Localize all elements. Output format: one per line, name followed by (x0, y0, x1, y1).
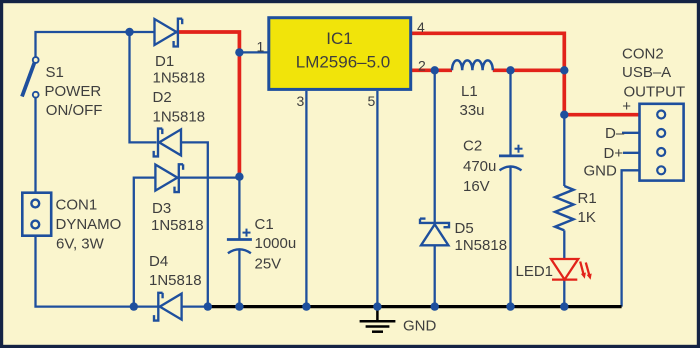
svg-text:S1: S1 (46, 64, 64, 81)
junction: +5V out / R1 (560, 111, 568, 119)
wire: output node down to R1 top (563, 115, 565, 186)
svg-text:D1: D1 (155, 53, 174, 70)
svg-text:D+: D+ (604, 145, 624, 162)
wire: CON2 GND pin down to ground rail (622, 170, 640, 306)
junction: pin5 / rail / gnd (373, 302, 381, 310)
wire: S1 bottom to CON1 top (34, 98, 36, 193)
connector CON1 (22, 193, 51, 236)
svg-text:CON2: CON2 (622, 46, 664, 63)
svg-text:LM2596–5.0: LM2596–5.0 (296, 53, 391, 72)
svg-text:2: 2 (418, 58, 426, 74)
junction: D5 / rail (431, 302, 439, 310)
wire: IC1 pin 3 to ground rail (305, 91, 307, 307)
diode D4 (1N5818) (154, 293, 182, 321)
junction: S1/D1/D2 node (125, 28, 133, 36)
wire: D2 anode to vertical bus (181, 142, 208, 306)
junction: D4 anode / rail (204, 302, 212, 310)
diode D5 (1N5818) (420, 219, 449, 246)
wire: R1 bottom to LED1 anode (563, 230, 565, 259)
svg-text:D3: D3 (152, 200, 171, 217)
wire: top rail S1 to D1 anode node (36, 32, 130, 57)
capacitor C2 (499, 145, 524, 171)
wire: D3 junction down to C1 top (238, 177, 240, 240)
svg-text:470u: 470u (463, 158, 496, 175)
diode D1 (1N5818) (155, 19, 183, 47)
wire: C2 bottom to ground rail (509, 166, 511, 306)
svg-text:OUTPUT: OUTPUT (624, 84, 686, 101)
svg-text:+: + (622, 98, 631, 115)
resistor R1 (555, 186, 573, 230)
svg-text:1N5818: 1N5818 (153, 109, 206, 126)
wire: IC1 pin 1 (239, 51, 268, 53)
junction: C1 / rail (235, 302, 243, 310)
wire: D5 anode to ground rail (434, 245, 436, 306)
LED1 (551, 259, 589, 280)
svg-text:1N5818: 1N5818 (153, 70, 206, 87)
wire: output node to CON2 + pin (red) (564, 113, 639, 117)
svg-text:D2: D2 (153, 89, 172, 106)
wire: CON2 D+ pin (623, 152, 640, 154)
diode D2 (1N5818) (154, 129, 181, 157)
IC1 LM2596-5.0 (269, 18, 411, 90)
svg-text:1: 1 (257, 39, 265, 55)
svg-text:POWER: POWER (45, 83, 102, 100)
svg-text:IC1: IC1 (326, 29, 352, 48)
junction: pin2 / D5 (431, 66, 439, 74)
wire: CON2 D- pin (622, 132, 640, 134)
svg-text:1N5818: 1N5818 (455, 237, 508, 254)
svg-text:3: 3 (297, 93, 305, 109)
junction: D3 cathode / C1 (235, 173, 243, 181)
wire: D4 anode to ground rail start (181, 305, 207, 307)
svg-text:D4: D4 (149, 253, 168, 270)
junction: IC1 pin 1 tap (235, 48, 243, 56)
wire: node A down to D2 cathode (130, 32, 157, 142)
svg-text:16V: 16V (463, 178, 490, 195)
ground symbol (360, 307, 396, 332)
svg-text:33u: 33u (460, 102, 485, 119)
svg-text:R1: R1 (578, 190, 597, 207)
junction: C2 / rail (506, 302, 514, 310)
svg-text:CON1: CON1 (56, 197, 98, 214)
wire: L1 to output node (red) (493, 68, 565, 72)
wire: D1 cathode to positive bus (red) (177, 32, 240, 177)
svg-text:25V: 25V (255, 255, 282, 272)
inductor L1 (452, 60, 493, 70)
svg-text:D5: D5 (455, 220, 474, 237)
wire: IC1 pin 4 feedback to output node (red) (412, 33, 564, 114)
svg-text:C2: C2 (463, 138, 482, 155)
svg-text:LED1: LED1 (516, 263, 554, 280)
diode D3 (1N5818) (155, 164, 183, 192)
junction: pin3 / rail (302, 302, 310, 310)
svg-text:1K: 1K (578, 209, 596, 226)
wire: C2 node down to C2 top (509, 70, 511, 156)
junction: LED1 / rail (560, 302, 568, 310)
svg-text:6V, 3W: 6V, 3W (56, 235, 105, 252)
svg-text:GND: GND (584, 163, 618, 180)
svg-text:1N5818: 1N5818 (149, 272, 202, 289)
wire: IC1 pin 2 to L1 (red) (412, 68, 452, 72)
wire: D3 cathode to red bus junction (179, 176, 239, 178)
wire: C1 bottom to ground rail (238, 250, 240, 307)
wire: D4 cathode node to D4 (134, 305, 158, 307)
wire: node A to D1 anode (130, 31, 155, 33)
junction: D4 cathode / D3 anode (130, 302, 138, 310)
svg-text:1000u: 1000u (255, 235, 297, 252)
svg-text:D–: D– (605, 125, 625, 142)
svg-text:DYNAMO: DYNAMO (56, 216, 122, 233)
ground rail (black) (208, 305, 622, 308)
wire: D3 anode left and down to D4 cathode node (134, 178, 156, 307)
capacitor C1 (227, 229, 252, 254)
wire: IC1 pin 5 to ground rail (376, 91, 378, 307)
svg-text:4: 4 (417, 19, 425, 35)
svg-text:5: 5 (368, 93, 376, 109)
switch S1 (22, 57, 39, 98)
junction: L1 out / C2 (506, 66, 514, 74)
wire: CON1 bottom down to ground return (36, 236, 134, 307)
svg-text:USB–A: USB–A (622, 64, 671, 81)
junction: pin4 / L1 out (560, 66, 568, 74)
svg-text:L1: L1 (461, 83, 478, 100)
wire: D5 cathode node down to D5 (434, 70, 436, 223)
svg-text:1N5818: 1N5818 (151, 217, 204, 234)
svg-text:C1: C1 (255, 216, 274, 233)
connector CON2 USB-A (640, 104, 684, 181)
wire: LED1 cathode to ground rail (563, 280, 565, 307)
svg-text:GND: GND (403, 318, 437, 335)
svg-text:ON/OFF: ON/OFF (46, 102, 103, 119)
